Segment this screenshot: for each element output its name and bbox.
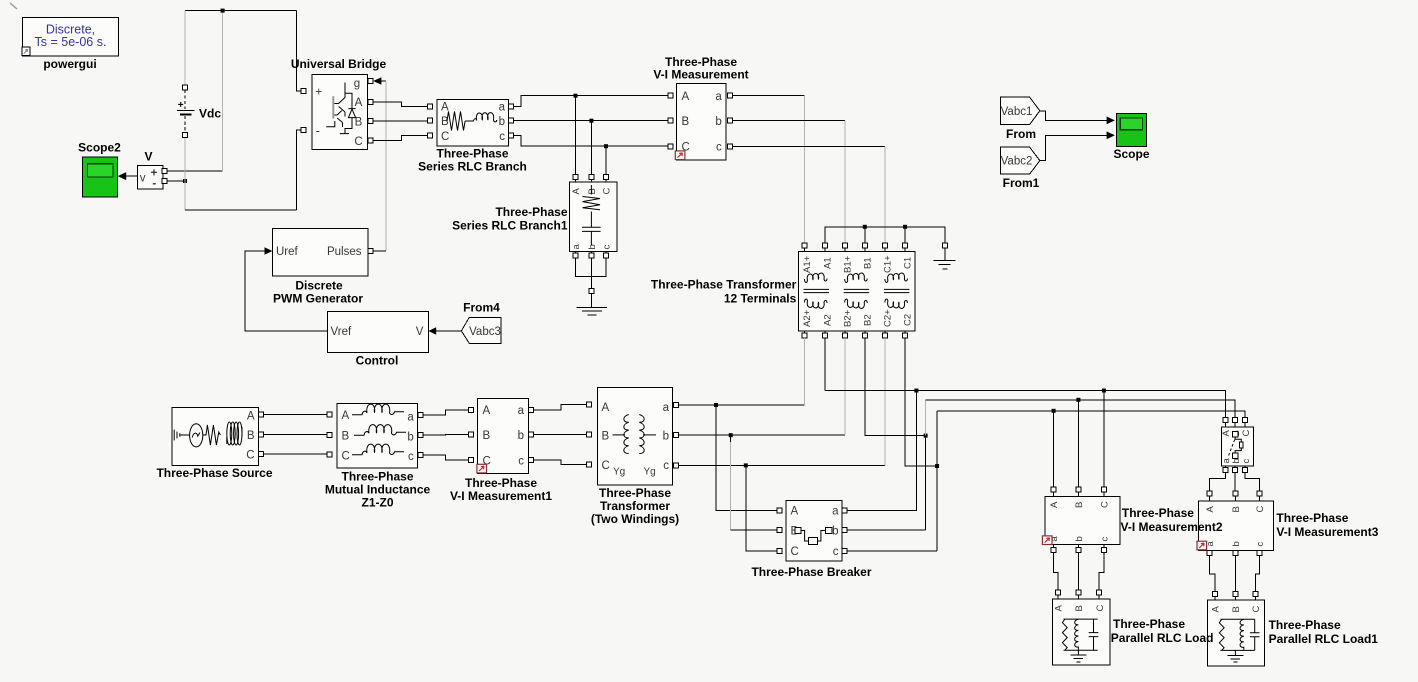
wire bridge A to RLC A (373, 102, 428, 106)
svg-text:c: c (663, 460, 669, 472)
bridge A port (368, 100, 373, 105)
bridge - port (301, 128, 306, 133)
svg-text:A: A (1205, 506, 1216, 513)
vim2 bottom ports (1051, 548, 1056, 553)
svg-text:Three-Phase: Three-Phase (1113, 617, 1185, 631)
mutual inductor icons (352, 404, 404, 415)
junction B2/vim2 B (1076, 398, 1080, 402)
wire B2 net row2 (926, 400, 1236, 418)
svg-text:B: B (587, 188, 598, 194)
wire branch1 b to ground (590, 258, 592, 289)
scroll artifact mark top-left (10, 3, 17, 9)
tr2w right ports (674, 403, 679, 408)
svg-text:Scope2: Scope2 (78, 141, 121, 155)
breaker1 bottom ports (1223, 468, 1228, 473)
svg-text:Control: Control (356, 354, 399, 368)
junction neutral B1 (863, 225, 867, 229)
breaker1 top ports (1223, 418, 1228, 423)
vim2 top ports (1051, 487, 1056, 492)
svg-text:a: a (518, 405, 525, 417)
wire breaker c out (847, 550, 937, 552)
vi measurement3 U_vim3 (1199, 501, 1274, 550)
load1 RLC icon (1220, 619, 1254, 650)
transformer two windings U_tr2w (598, 388, 673, 485)
ground symbol G4 (1227, 655, 1243, 662)
bridge C port (368, 138, 373, 143)
wire DC+ rail down to bridge + (297, 11, 302, 91)
bridge IGBT upper (334, 83, 345, 117)
branch1 resistor icon (583, 185, 601, 210)
svg-text:powergui: powergui (43, 57, 96, 71)
svg-text:C: C (354, 136, 362, 148)
junction A2/breaker-a (914, 389, 918, 393)
svg-text:C1+: C1+ (883, 255, 894, 273)
wire bridge B to RLC B (373, 120, 428, 122)
tr2w left ports (587, 402, 592, 407)
wire vim2 a to load A (1054, 552, 1058, 590)
svg-text:Uref: Uref (276, 246, 299, 258)
svg-text:c: c (1241, 459, 1252, 464)
svg-text:Three-Phase: Three-Phase (599, 486, 671, 500)
wire row b tr2w to B2+ (679, 434, 846, 436)
wire breaker C feed (746, 465, 777, 551)
scope Scope2 (82, 157, 117, 197)
scope Scope (1117, 113, 1147, 146)
svg-text:-: - (316, 123, 320, 138)
svg-text:+: + (315, 84, 322, 98)
wire breaker1 c to vim3 C (1245, 473, 1259, 491)
svg-text:A1+: A1+ (802, 255, 813, 273)
junction tap c to branch1 (604, 144, 608, 148)
svg-text:b: b (407, 431, 413, 443)
bridge IGBT lower (334, 111, 342, 128)
mutual left ports (327, 412, 332, 417)
wire mutual a to vim1 A (423, 410, 469, 415)
mutual right ports (418, 412, 423, 417)
load RLC icon (1064, 619, 1098, 650)
svg-text:B: B (483, 430, 491, 442)
svg-text:B: B (247, 430, 255, 442)
rlc branch resistor icon (447, 112, 465, 131)
wire DC- bottom rail (185, 209, 297, 211)
svg-text:A2+: A2+ (802, 309, 813, 327)
svg-text:B: B (1074, 605, 1085, 611)
svg-text:b: b (832, 526, 838, 538)
V - port (162, 178, 167, 183)
vim1 left ports (468, 407, 473, 412)
ground symbol G2 (944, 248, 946, 260)
svg-text:V: V (416, 326, 424, 338)
svg-text:A: A (247, 410, 255, 422)
svg-text:B: B (1231, 606, 1242, 612)
wire breaker A feed (716, 405, 777, 510)
V + port (162, 168, 167, 173)
powergui corner icon (22, 47, 30, 56)
bridge diode with bar (340, 93, 356, 133)
arrow into bridge g (373, 77, 381, 85)
vim3 sample-time icon (1197, 541, 1207, 550)
junction row b breaker tap (729, 433, 733, 437)
svg-text:C: C (791, 546, 799, 558)
branch1 ground port (589, 289, 594, 294)
svg-text:a: a (407, 412, 414, 424)
wire vim2 b to load B (1077, 552, 1079, 590)
Vdc bottom port (183, 132, 188, 137)
wire vim1 c to trafo C (533, 460, 587, 465)
Vdc plus sign (178, 102, 183, 107)
tr12 bottom ports (802, 333, 807, 338)
svg-text:V: V (144, 150, 152, 164)
svg-text:V-I Measurement2: V-I Measurement2 (1121, 520, 1223, 534)
wire row c tr2w to C2+ (679, 464, 886, 466)
svg-text:c: c (716, 142, 722, 154)
wire B1 stub (864, 227, 866, 243)
svg-text:V-I Measurement: V-I Measurement (653, 68, 748, 82)
wire Vabc2 to Scope (1040, 135, 1107, 160)
branch1 top ports (573, 175, 578, 180)
branch1 bottom ports (573, 253, 578, 258)
wire vim b to B1+ (732, 120, 845, 122)
svg-text:Three-Phase: Three-Phase (1276, 511, 1348, 525)
svg-text:C: C (602, 188, 613, 195)
svg-text:c: c (518, 456, 524, 468)
wire A2 net down (824, 338, 826, 391)
three-phase breaker U_brk (786, 500, 842, 561)
svg-text:Three-Phase Source: Three-Phase Source (156, 466, 272, 480)
bridge + port (301, 89, 306, 94)
svg-text:Three-Phase: Three-Phase (341, 470, 413, 484)
svg-text:b: b (1231, 541, 1242, 546)
control block U_control (327, 312, 428, 353)
svg-text:Three-Phase: Three-Phase (1269, 618, 1341, 632)
svg-text:V-I Measurement1: V-I Measurement1 (450, 489, 552, 503)
wire DC- rail up to bridge - (297, 130, 302, 210)
wire tap A down to branch1 (575, 96, 577, 175)
parallel rlc load U_load (1053, 599, 1111, 665)
load1 ports (1212, 591, 1217, 596)
svg-text:C: C (246, 450, 254, 462)
ground symbol G3 (1070, 655, 1086, 662)
svg-text:Three-Phase Transformer: Three-Phase Transformer (651, 278, 797, 292)
svg-text:B1+: B1+ (843, 255, 854, 273)
svg-text:From4: From4 (463, 301, 500, 315)
breaker left ports (777, 508, 782, 513)
wire bridge C to RLC C (373, 136, 428, 141)
universal bridge U_bridge (312, 75, 368, 150)
wire C2 net riser (936, 411, 938, 551)
wire vim3 a to load1 A (1210, 556, 1215, 592)
svg-text:Vdc: Vdc (199, 107, 221, 121)
svg-text:From: From (1006, 127, 1036, 141)
svg-text:v: v (140, 173, 146, 185)
svg-text:(Two Windings): (Two Windings) (591, 512, 679, 526)
wire C2 net row3 (937, 411, 1245, 418)
svg-text:Three-Phase: Three-Phase (465, 476, 537, 490)
wire A2 net row1 (825, 391, 1226, 418)
svg-text:Pulses: Pulses (327, 246, 362, 258)
svg-text:B2: B2 (862, 314, 873, 326)
arrow into Scope2 (118, 172, 126, 180)
svg-text:12 Terminals: 12 Terminals (724, 292, 797, 306)
svg-text:A: A (355, 97, 363, 109)
wire C1 stub (904, 227, 906, 243)
svg-text:Series RLC Branch: Series RLC Branch (418, 160, 527, 174)
svg-text:PWM Generator: PWM Generator (273, 292, 363, 306)
svg-text:C: C (342, 450, 350, 462)
vim3 bottom ports (1207, 551, 1212, 556)
vim1 right ports (528, 407, 533, 412)
wire Pulses to gate riser (373, 250, 386, 252)
vim sample-time icon (675, 151, 685, 160)
svg-text:Yg: Yg (644, 467, 656, 478)
three-phase breaker1 U_brk1 rotated (1221, 427, 1253, 466)
svg-text:b: b (518, 430, 524, 442)
rlc branch right ports (508, 104, 513, 109)
svg-text:A: A (682, 91, 690, 103)
wire gate vertical (385, 81, 387, 251)
wire neutral rail A1 B1 C1 (825, 227, 945, 243)
wire tap B down to branch1 (590, 121, 592, 175)
from tag From4 Vabc3 (461, 317, 501, 343)
wire Vdc bottom vertical (184, 137, 186, 210)
load ports (1055, 590, 1060, 595)
wire V to Scope2 (126, 175, 137, 177)
powergui block U_powergui (23, 18, 119, 56)
svg-text:C1: C1 (903, 257, 914, 269)
wire breaker1 b to vim3 B (1234, 473, 1236, 491)
svg-text:c: c (1100, 537, 1111, 542)
Vdc long plate (177, 109, 195, 111)
junction row c breaker tap (744, 463, 748, 467)
svg-text:Three-Phase Breaker: Three-Phase Breaker (751, 565, 871, 579)
svg-text:c: c (602, 245, 613, 250)
svg-text:C: C (1095, 605, 1106, 612)
source ports (258, 412, 263, 417)
svg-text:A1: A1 (822, 257, 833, 269)
tr2w winding icon (613, 434, 626, 436)
series rlc branch1 U_rlc2 (569, 182, 617, 252)
svg-text:C: C (1255, 506, 1266, 513)
vim right ports (727, 93, 732, 98)
svg-text:Parallel RLC Load1: Parallel RLC Load1 (1269, 632, 1379, 646)
svg-text:B2+: B2+ (843, 309, 854, 327)
three-phase source U_src (172, 407, 259, 465)
svg-text:A2: A2 (822, 314, 833, 326)
wire vim3 c to load1 C (1255, 556, 1259, 592)
transformer 12 terminals U_tr12 (799, 252, 916, 331)
wire vim1 b to trafo B (533, 434, 587, 436)
wire tap C down to branch1 (605, 146, 607, 175)
arrow into Uref (265, 247, 273, 255)
svg-text:C: C (1100, 501, 1111, 508)
bridge B port (368, 119, 373, 124)
wire source C to mutual C (263, 453, 327, 455)
svg-text:C: C (441, 131, 449, 143)
pwm Pulses port (368, 249, 373, 254)
breaker switch icon (795, 527, 801, 533)
vim2 sample-time icon (1042, 536, 1052, 545)
svg-text:A: A (1210, 606, 1221, 613)
svg-text:C: C (1241, 430, 1252, 437)
junction DC- / V- (183, 179, 187, 183)
svg-text:Ts = 5e-06 s.: Ts = 5e-06 s. (35, 35, 107, 49)
svg-text:Transformer: Transformer (600, 499, 670, 513)
svg-text:A: A (571, 188, 582, 195)
svg-text:B: B (1074, 502, 1085, 508)
svg-text:c: c (408, 451, 414, 463)
junction B2 row (924, 434, 928, 438)
svg-text:a: a (499, 102, 506, 114)
svg-text:a: a (715, 91, 722, 103)
wire DC+ top rail (185, 10, 297, 12)
svg-text:Universal Bridge: Universal Bridge (291, 57, 387, 71)
wire branch1 c to neutral (591, 258, 606, 277)
svg-text:Mutual Inductance: Mutual Inductance (325, 483, 431, 497)
wire vim c to C1+ (732, 145, 885, 147)
wire C2 net down (905, 338, 937, 466)
wire breaker a out (847, 391, 917, 511)
junction neutral C1 (903, 225, 907, 229)
svg-text:B: B (602, 431, 610, 443)
wire vim2 c to load C (1099, 552, 1104, 590)
breaker1 switch icon (1232, 432, 1237, 437)
wire source A to mutual A (263, 414, 327, 416)
wire V+ vertical riser (222, 11, 224, 171)
svg-text:A: A (1054, 605, 1065, 612)
vi measurement2 U_vim2 (1045, 496, 1120, 544)
junction DC+ rail / V+ (221, 9, 225, 13)
mutual inductance U_mut (337, 403, 417, 468)
wire mutual b to vim1 B (423, 434, 469, 437)
svg-text:b: b (663, 431, 669, 443)
from tag From Vabc1 (1001, 97, 1040, 125)
bridge IGBT gate bar (332, 96, 334, 118)
wire B2 net riser (925, 400, 927, 436)
rlc branch left ports (428, 104, 433, 109)
wire rlc b row (513, 120, 668, 122)
svg-text:Vabc3: Vabc3 (469, 326, 501, 338)
svg-text:B: B (1231, 506, 1242, 512)
breaker right ports (842, 508, 847, 513)
svg-text:Vabc1: Vabc1 (1001, 106, 1033, 118)
svg-text:B: B (342, 431, 350, 443)
wire Control Vref to PWM Uref (245, 251, 327, 331)
wire vim2 C feed (1103, 391, 1105, 488)
rlc branch inductor icon (465, 113, 497, 122)
wire breaker b out (847, 529, 926, 531)
svg-text:a: a (663, 402, 670, 414)
ground symbol G1 (590, 293, 592, 307)
tr12 winding icons (805, 273, 828, 282)
vim1 sample-time icon (477, 464, 487, 473)
wire source B to mutual B (263, 433, 327, 435)
Vdc short plate (180, 113, 192, 115)
wire vim a to A1+ (732, 94, 804, 96)
wire rlc a row (513, 96, 668, 107)
wire B2 net down (865, 338, 926, 436)
svg-text:a: a (832, 506, 839, 518)
arrow into Scope input2 (1107, 131, 1115, 139)
svg-text:c: c (499, 131, 505, 143)
vim left ports (668, 93, 673, 98)
junction row a breaker tap (714, 403, 718, 407)
wire Vdc top vertical (184, 11, 186, 86)
wire mutual c to vim1 C (423, 455, 469, 460)
vim3 top ports (1207, 491, 1212, 496)
voltage measurement V (137, 165, 163, 189)
svg-text:Discrete: Discrete (295, 279, 343, 293)
bridge emitter lead (326, 121, 335, 127)
svg-text:Series RLC Branch1: Series RLC Branch1 (452, 219, 568, 233)
junction tap b to branch1 (589, 119, 593, 123)
svg-text:g: g (354, 78, 360, 90)
bridge g port (368, 79, 373, 84)
branch1 capacitor icon (582, 212, 601, 246)
wire vim1 a to trafo A (533, 405, 587, 410)
dc source Vdc dashed leads (184, 90, 186, 135)
wire row a tr2w to A2+ (679, 404, 805, 406)
svg-text:C: C (1251, 606, 1262, 613)
wire vim2 B feed (1077, 400, 1079, 487)
vi measurement1 U_vim1 (477, 399, 528, 474)
svg-text:C2: C2 (903, 314, 914, 326)
svg-text:Z1-Z0: Z1-Z0 (361, 496, 393, 510)
svg-text:From1: From1 (1003, 176, 1040, 190)
svg-text:Three-Phase: Three-Phase (436, 147, 508, 161)
svg-text:Scope: Scope (1113, 147, 1149, 161)
svg-text:B: B (355, 116, 363, 128)
svg-text:C2+: C2+ (883, 309, 894, 327)
svg-text:a: a (571, 244, 582, 250)
source icon (174, 430, 189, 441)
svg-text:Three-Phase: Three-Phase (495, 205, 567, 219)
svg-text:b: b (587, 244, 598, 249)
wire rlc c row (513, 136, 668, 147)
svg-text:A: A (791, 506, 799, 518)
wire branch1 a to neutral (576, 258, 592, 277)
wire breaker B feed (730, 435, 732, 530)
vi measurement U_vim (677, 84, 727, 161)
Vdc top port (183, 85, 188, 90)
tr12 top ports (802, 243, 807, 248)
wire vim3 b to load1 B (1234, 556, 1236, 592)
svg-text:b: b (715, 116, 721, 128)
svg-text:V-I Measurement3: V-I Measurement3 (1276, 525, 1378, 539)
arrow into Scope input1 (1107, 117, 1115, 125)
svg-text:Vref: Vref (331, 326, 352, 338)
svg-text:A: A (483, 405, 491, 417)
svg-text:A: A (342, 410, 350, 422)
svg-text:b: b (499, 116, 505, 128)
svg-text:c: c (1255, 542, 1266, 547)
arrow into Control V (428, 327, 436, 335)
wire vim2 A feed (1053, 411, 1055, 487)
junction A2/vim2 C (1102, 389, 1106, 393)
transformer ground port (943, 243, 948, 248)
junction tap a to branch1 (574, 94, 578, 98)
svg-text:Vabc2: Vabc2 (1001, 156, 1033, 168)
svg-text:Parallel RLC Load: Parallel RLC Load (1111, 631, 1214, 645)
junction C2 row (935, 464, 939, 468)
svg-text:C: C (602, 460, 610, 472)
svg-text:Yg: Yg (613, 467, 625, 478)
svg-text:B1: B1 (862, 257, 873, 269)
wire V+ to DC+ rail (167, 170, 223, 172)
pwm generator U_pwm (272, 229, 368, 276)
parallel rlc load1 U_load1 (1207, 600, 1264, 666)
wire V- to DC- node (167, 180, 185, 182)
svg-text:-: - (152, 178, 156, 190)
